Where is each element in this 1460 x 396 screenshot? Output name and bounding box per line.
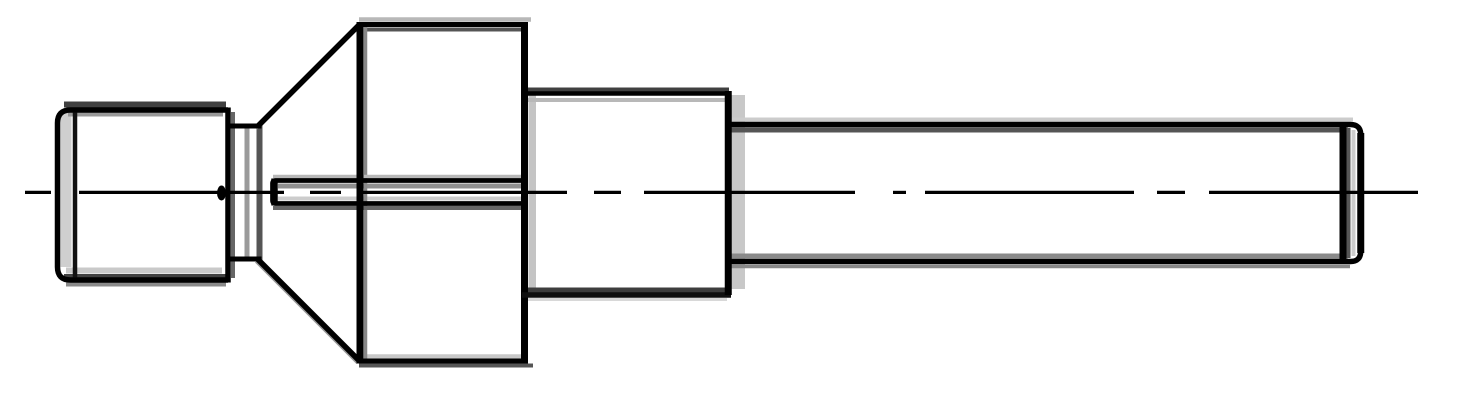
flange right edge gray band [529, 94, 537, 293]
flange right edge [521, 22, 528, 364]
slot left cap [271, 179, 278, 206]
step2 right edge [725, 91, 732, 295]
step2 bottom halos [526, 288, 728, 293]
shaft end chamfer gray [1352, 130, 1356, 256]
flange bottom halos [364, 354, 521, 359]
flange top edge [357, 22, 528, 27]
head outline [58, 110, 229, 280]
head chamfer line [73, 113, 78, 278]
flange left edge gray fringe [364, 27, 368, 359]
head bottom halo [66, 268, 222, 274]
cone bottom diagonal [258, 260, 360, 362]
flange top halos [359, 17, 531, 22]
gray halo bands [61, 20, 1354, 366]
center dot on axis at head right edge [217, 186, 226, 201]
head chamfer gray band [61, 113, 72, 267]
slot interior fill [272, 181, 527, 203]
shaft bottom halos [731, 254, 1348, 259]
step2 bottom edge [522, 292, 731, 298]
neck gray vertical 2 (cone tangent) [257, 124, 263, 262]
shaft top halos [731, 118, 1353, 122]
head top halo dark [64, 102, 226, 108]
shaft end right edge [1357, 133, 1364, 253]
head right edge [225, 108, 231, 283]
cone top diagonal halo [256, 27, 358, 129]
shaft outline with rounded right end [726, 125, 1361, 262]
step2 right edge gray band [732, 95, 746, 289]
cone bottom diagonal halo [256, 262, 358, 364]
head right edge gray band [231, 112, 235, 278]
flange left edge [357, 22, 364, 364]
slot outline [273, 181, 527, 204]
centerline (dash-dot axis) [25, 191, 1418, 194]
cone top diagonal [258, 25, 360, 127]
neck bottom edge [226, 257, 262, 262]
neck gray vertical 1 [245, 124, 250, 262]
flange bottom edge [357, 359, 528, 364]
shaft end chamfer line [1340, 127, 1347, 259]
step2 top halos [525, 88, 729, 92]
neck top edge [226, 124, 262, 129]
slot outer halos [273, 175, 527, 179]
step2 top edge [522, 91, 731, 96]
